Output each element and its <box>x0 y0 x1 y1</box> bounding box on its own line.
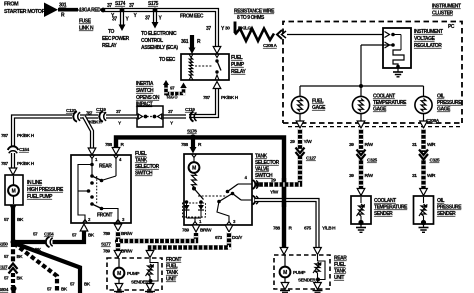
svg-text:IN LINE: IN LINE <box>27 180 43 186</box>
connector C154 inline pump <box>11 147 15 153</box>
svg-text:789: 789 <box>103 249 110 255</box>
svg-text:C208 A: C208 A <box>263 43 278 49</box>
ivr heater resistor <box>393 50 404 66</box>
svg-text:T&G O: T&G O <box>166 95 178 100</box>
tank selector valve switch S4 box <box>184 154 252 225</box>
wire 789 BR/W S177 to valve pin1 <box>118 233 196 241</box>
wire ivr feed <box>287 34 383 36</box>
svg-text:37: 37 <box>145 16 150 22</box>
oil sender element <box>423 197 425 203</box>
svg-text:788: 788 <box>105 142 112 148</box>
svg-text:TO: TO <box>108 29 115 35</box>
rear fuel tank unit dashed box <box>274 255 330 289</box>
coolant gauge G2 <box>352 96 369 113</box>
svg-text:S150: S150 <box>0 242 8 248</box>
valve mid switch <box>217 200 221 204</box>
svg-text:PK/BK H: PK/BK H <box>17 161 35 167</box>
junction dots redraw <box>101 8 106 13</box>
coolant gauge output pin <box>360 114 362 121</box>
wire 361 R to relay <box>190 35 194 48</box>
connector C208 A <box>277 30 282 39</box>
svg-text:S177: S177 <box>101 242 111 248</box>
wire 57 BK below C127 <box>11 273 15 286</box>
svg-text:57: 57 <box>4 217 9 223</box>
wire 57 BK to C154 to selector pin2 <box>13 240 45 244</box>
svg-text:PC: PC <box>448 24 455 30</box>
svg-text:S174: S174 <box>115 1 126 7</box>
coolant sender ground <box>360 224 362 228</box>
svg-text:39: 39 <box>349 173 354 179</box>
svg-text:FROM EEC: FROM EEC <box>180 14 204 20</box>
svg-text:BR/W: BR/W <box>121 231 133 237</box>
svg-text:PK/BK H: PK/BK H <box>17 133 35 139</box>
wire 789 BR/W S177 to front tank <box>116 242 120 251</box>
svg-text:673: 673 <box>215 235 222 241</box>
wire 787 relay output <box>189 87 217 116</box>
svg-text:REGULATOR: REGULATOR <box>414 43 442 49</box>
pin notch valve bot1 <box>193 222 198 226</box>
svg-text:BK: BK <box>17 217 24 223</box>
svg-text:31: 31 <box>412 142 417 148</box>
svg-text:301: 301 <box>59 3 67 9</box>
wire 57 BK pump to S150 <box>10 205 17 212</box>
svg-text:788: 788 <box>273 226 280 232</box>
svg-text:FUEL PUMP: FUEL PUMP <box>27 194 53 200</box>
svg-text:FUEL: FUEL <box>334 262 346 268</box>
rear sender ground pin <box>314 283 322 290</box>
connector C325 coolant <box>358 152 363 159</box>
rear pump motor M5 <box>284 255 286 267</box>
connector arrow into pump <box>9 168 17 175</box>
wire 57 BK down to G804 <box>11 242 15 263</box>
svg-text:37: 37 <box>168 109 173 115</box>
pump motor M1 <box>13 176 15 185</box>
wire 789 BR/W selector pin3 to S177 <box>114 224 122 231</box>
wire 57 BK solid diagonal ground <box>14 243 80 293</box>
coolant sender feed arrow <box>357 189 365 196</box>
wire 788 R bus overlay at crossings <box>282 178 286 207</box>
svg-text:M: M <box>117 271 121 277</box>
svg-text:TEMPERATURE: TEMPERATURE <box>374 205 408 211</box>
svg-text:M: M <box>283 270 287 276</box>
relay switch contacts <box>215 59 218 62</box>
diode CR2 <box>198 205 204 210</box>
svg-text:REAR: REAR <box>334 256 347 262</box>
instrument cluster dashed box <box>283 22 462 124</box>
svg-text:TO ELECTRONIC: TO ELECTRONIC <box>141 31 177 37</box>
fuel gauge G1 <box>291 96 308 113</box>
valve motor M3 <box>193 157 195 162</box>
svg-text:FRONT: FRONT <box>166 257 181 263</box>
selector blade rear <box>92 176 102 181</box>
selector internal pin1 branch <box>91 159 93 177</box>
svg-text:789: 789 <box>182 228 189 234</box>
svg-text:W/R: W/R <box>427 173 436 179</box>
svg-text:SWITCH: SWITCH <box>136 88 154 94</box>
svg-text:LINK N: LINK N <box>79 26 94 32</box>
svg-text:37: 37 <box>116 109 121 115</box>
pin notch bot3 <box>116 220 121 224</box>
svg-text:INSTRUMENT: INSTRUMENT <box>432 4 461 10</box>
svg-text:PRESSURE: PRESSURE <box>437 205 462 211</box>
svg-text:18GA RED: 18GA RED <box>79 8 101 14</box>
rear sender R2 <box>317 255 319 261</box>
svg-text:HIGH PRESSURE: HIGH PRESSURE <box>27 187 64 193</box>
svg-text:C154: C154 <box>19 147 30 153</box>
wire S175 drop to ECA <box>153 10 157 22</box>
wire 673 DG/Y valve pin3 to front sender <box>225 225 233 232</box>
svg-text:37: 37 <box>107 3 112 9</box>
svg-text:C325: C325 <box>430 158 441 164</box>
wire 787 main horizontal <box>80 114 98 118</box>
svg-text:BR/W: BR/W <box>121 249 133 255</box>
svg-text:FUEL: FUEL <box>312 99 324 105</box>
coolant temperature sender R4 box <box>351 196 371 224</box>
svg-text:Y/LB H: Y/LB H <box>322 226 336 232</box>
svg-text:S175: S175 <box>148 1 159 7</box>
svg-text:C127: C127 <box>0 265 8 270</box>
svg-text:TO EEC: TO EEC <box>159 57 176 63</box>
front fuel tank unit dashed box <box>107 258 162 290</box>
resistance wire R3 zigzag <box>234 22 237 34</box>
svg-text:FUSE: FUSE <box>79 19 92 25</box>
svg-text:OPENS ON: OPENS ON <box>136 95 160 101</box>
wire 39 R/W <box>359 129 363 190</box>
svg-text:CONTROL: CONTROL <box>141 38 163 44</box>
relay U1 FUEL PUMP RELAY box <box>181 54 229 80</box>
svg-text:PUMP: PUMP <box>231 62 245 68</box>
diode dashed box <box>183 203 206 217</box>
wire S174 drop to EEC power relay <box>120 10 124 25</box>
svg-text:TANK: TANK <box>255 154 268 160</box>
svg-text:DG/Y: DG/Y <box>232 235 243 241</box>
wire 57 BK dashed diagonal ground <box>14 244 57 293</box>
valve bottom bus left <box>187 217 202 219</box>
svg-text:31: 31 <box>412 173 417 179</box>
svg-text:INSTRUMENT: INSTRUMENT <box>414 29 443 35</box>
svg-text:TEMPERATURE: TEMPERATURE <box>373 100 407 106</box>
svg-text:SWITCH: SWITCH <box>135 171 153 177</box>
node junction fuse link <box>101 8 106 13</box>
svg-text:G804: G804 <box>0 287 9 293</box>
oil pressure sender R5 box <box>414 196 434 224</box>
svg-text:PK/BK H: PK/BK H <box>221 95 239 101</box>
svg-text:FUEL: FUEL <box>231 55 243 61</box>
wire 788 R stub to valve switch <box>191 137 195 147</box>
svg-text:37: 37 <box>129 3 134 9</box>
selector contact chain <box>90 174 94 178</box>
ivr contacts <box>391 33 395 37</box>
wire 97 T&O ground bracket <box>166 83 184 94</box>
svg-text:TANK: TANK <box>334 269 347 275</box>
oil gauge G3 <box>415 96 432 113</box>
svg-text:BR/W: BR/W <box>200 228 212 234</box>
diode CR1 <box>184 205 190 210</box>
selector blade front <box>92 204 102 209</box>
valve dashed link <box>198 195 227 197</box>
front sender R1 <box>149 258 151 263</box>
svg-text:VALVE: VALVE <box>255 167 270 173</box>
svg-text:TANK: TANK <box>166 270 179 276</box>
svg-text:C325: C325 <box>367 158 378 164</box>
pin notch top4 <box>114 155 119 159</box>
svg-text:COOLANT: COOLANT <box>373 94 395 100</box>
front pump motor M4 <box>118 258 120 268</box>
svg-text:IMPACT: IMPACT <box>136 102 153 108</box>
svg-text:M: M <box>192 166 196 172</box>
ivr ground <box>397 69 399 73</box>
pin notch top1 <box>90 155 95 159</box>
in-line high pressure fuel pump box <box>5 175 23 205</box>
fuel tank selector switch S3 box <box>71 155 131 223</box>
front sender ground pin <box>146 284 154 291</box>
svg-text:RESISTANCE WIRE: RESISTANCE WIRE <box>234 9 275 15</box>
relay coil <box>189 58 192 77</box>
svg-text:Y/W: Y/W <box>270 190 279 196</box>
wire 31 W/R <box>421 129 425 190</box>
svg-text:EEC POWER: EEC POWER <box>102 36 130 42</box>
svg-text:29: 29 <box>271 178 276 184</box>
rear pump ground pin <box>281 283 289 290</box>
svg-text:Y/W: Y/W <box>304 139 313 145</box>
valve blade left <box>194 189 204 200</box>
svg-text:REAR: REAR <box>99 164 112 170</box>
node bus to oil gauge <box>423 86 425 97</box>
svg-text:UNIT: UNIT <box>166 277 176 283</box>
svg-text:OIL: OIL <box>437 94 444 100</box>
svg-text:ASSEMBLY (ECA): ASSEMBLY (ECA) <box>141 45 178 51</box>
valve diode contacts <box>185 200 189 204</box>
svg-text:FUEL: FUEL <box>135 151 147 157</box>
selector pin4 line <box>115 159 117 177</box>
svg-text:COOLANT: COOLANT <box>374 198 396 204</box>
svg-text:PRESSURE: PRESSURE <box>437 100 462 106</box>
instrument voltage regulator U2 box <box>383 28 411 68</box>
pin notch valve bot3 <box>227 222 232 226</box>
valve right switch upper <box>238 183 252 185</box>
wire 788 R bus <box>116 137 284 248</box>
svg-text:GAGE: GAGE <box>373 107 387 113</box>
node bus to coolant gauge <box>360 86 362 97</box>
svg-text:SELECTOR: SELECTOR <box>135 164 160 170</box>
svg-text:SENDER: SENDER <box>374 211 393 217</box>
svg-text:S176: S176 <box>187 129 197 135</box>
svg-text:TANK: TANK <box>135 158 148 164</box>
svg-text:361: 361 <box>181 39 189 45</box>
connector arcs valve exit 29 <box>253 180 256 189</box>
svg-text:675: 675 <box>304 226 311 232</box>
wire ivr output to gauge bus <box>361 44 393 46</box>
wire 787 branch to selector switch <box>84 117 92 150</box>
svg-text:37: 37 <box>206 26 211 32</box>
svg-text:30: 30 <box>225 26 230 32</box>
svg-text:C154: C154 <box>44 232 54 237</box>
svg-text:STARTER MOTOR: STARTER MOTOR <box>4 9 46 15</box>
connector C325 oil <box>421 152 426 159</box>
svg-text:C208A: C208A <box>426 118 440 124</box>
svg-text:FROM: FROM <box>4 2 19 8</box>
starter motor feed arrow <box>44 3 58 18</box>
svg-text:787: 787 <box>1 161 8 167</box>
svg-text:CLUSTER: CLUSTER <box>432 11 453 17</box>
svg-text:37: 37 <box>112 17 117 23</box>
svg-text:29: 29 <box>290 139 295 145</box>
svg-text:787: 787 <box>1 133 8 139</box>
svg-text:UNIT: UNIT <box>334 275 344 281</box>
svg-text:OIL: OIL <box>437 198 444 204</box>
svg-text:SENDER: SENDER <box>437 211 456 217</box>
pin notch bot2 <box>83 220 88 224</box>
svg-text:W/R: W/R <box>427 142 436 148</box>
fuel gauge output pin <box>299 114 301 121</box>
svg-text:C127: C127 <box>306 156 317 162</box>
oil sender feed arrow <box>420 189 428 196</box>
svg-text:PUMP: PUMP <box>293 270 306 276</box>
svg-text:PUMP: PUMP <box>127 271 140 277</box>
svg-text:SELECTOR: SELECTOR <box>255 160 280 166</box>
svg-text:R/W: R/W <box>365 142 374 148</box>
wire 29 Y/W <box>256 129 300 185</box>
oil gauge output pin <box>423 114 425 121</box>
oil sender ground <box>423 224 425 228</box>
svg-text:FRONT: FRONT <box>97 213 112 219</box>
connector C127 <box>297 150 302 157</box>
relay pin notches <box>189 54 193 58</box>
valve right switch lower <box>241 199 252 201</box>
svg-text:M: M <box>12 189 16 195</box>
svg-text:RELAY: RELAY <box>231 69 246 75</box>
svg-text:787: 787 <box>203 95 210 101</box>
svg-text:FUEL: FUEL <box>166 264 178 270</box>
coolant sender element <box>360 197 362 203</box>
wire 675 Y/LB H <box>255 200 318 248</box>
wire 37 Y inertia right <box>163 114 186 118</box>
connector arrow into relay pin <box>213 47 221 54</box>
svg-text:VOLTAGE: VOLTAGE <box>414 36 436 42</box>
svg-text:RELAY: RELAY <box>102 43 117 49</box>
inertia switch S2 box <box>137 106 163 127</box>
cluster bottom dashed connector line <box>283 122 462 124</box>
svg-text:R/W: R/W <box>365 173 374 179</box>
svg-text:788: 788 <box>181 142 188 148</box>
svg-text:8 TO 9 OHMS: 8 TO 9 OHMS <box>237 15 265 21</box>
svg-text:GAGE: GAGE <box>312 105 326 111</box>
connector C154 ground leg <box>47 240 53 244</box>
connector arcs valve exit 675 <box>253 196 256 205</box>
valve resistor <box>192 173 197 187</box>
front pump ground pin <box>115 284 123 291</box>
wire 37 Y main feed <box>103 10 217 47</box>
gauge bus <box>300 85 424 87</box>
inertia switch contacts <box>144 115 148 119</box>
selector mid stub <box>78 190 88 192</box>
svg-text:789: 789 <box>103 231 110 237</box>
wire 301 18GA RED fuse link <box>58 8 78 12</box>
svg-text:GAGE: GAGE <box>437 107 451 113</box>
wire 37 Y inertia left <box>106 114 137 118</box>
ivr input contact <box>385 32 390 38</box>
node bus to fuel gauge <box>299 86 301 97</box>
svg-text:39: 39 <box>349 142 354 148</box>
relay dashed link <box>195 65 212 67</box>
svg-text:INERTIA: INERTIA <box>136 81 154 87</box>
